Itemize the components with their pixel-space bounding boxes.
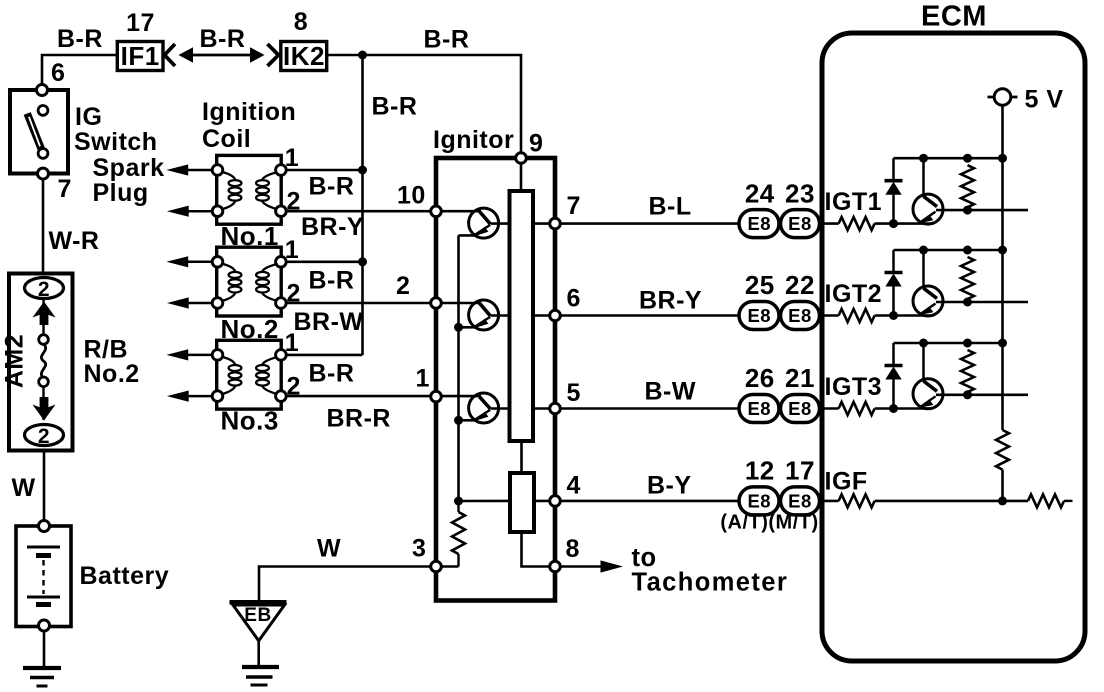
svg-text:Switch: Switch [74, 128, 158, 156]
label IGT3 [825, 373, 883, 401]
connector E8 pin 22 [781, 302, 820, 330]
connector E8 pin 23 [781, 210, 820, 238]
fuse AM2 in relay block R/B No.2 [1, 274, 73, 451]
junction IGT2 node [889, 311, 898, 320]
ECM box [822, 33, 1085, 661]
wire B-R from IK2 to Ignitor pin 9 [327, 55, 521, 153]
svg-text:21: 21 [785, 363, 815, 393]
junction collector / top rail [919, 154, 928, 163]
pin 1 (ignitor) [431, 391, 442, 402]
svg-text:24: 24 [745, 178, 775, 208]
label B-L [649, 193, 692, 221]
pin label 22 (E8) [785, 270, 815, 300]
wire IGT1 node [875, 222, 932, 225]
svg-text:4: 4 [567, 472, 581, 500]
label BR-W (coil No.2 pin 2 wire) [294, 308, 364, 336]
junction pull-up resistor / base line [963, 298, 972, 307]
junction B-R rail at coil No.2 [358, 257, 367, 266]
svg-text:Ignition: Ignition [202, 98, 296, 126]
connector E8 pin 26 [739, 395, 779, 423]
svg-text:EB: EB [244, 605, 271, 626]
label B-R (between IF1 and IK2) [200, 25, 246, 53]
svg-text:5: 5 [567, 379, 581, 407]
arrow to Tachometer (from pin 8) [560, 560, 623, 572]
svg-text:W: W [12, 474, 36, 502]
pin label 1 (coil No.1) [285, 144, 299, 172]
driver block (ignitor upper) [510, 191, 534, 441]
wire between driver blocks [520, 441, 523, 473]
transistor Q1 (ignitor) [469, 208, 550, 238]
svg-text:2: 2 [287, 280, 301, 308]
wire B-Y from ignitor to ECM [560, 500, 838, 503]
resistor (ignitor, emitter to pin 3) [452, 501, 465, 567]
svg-text:IGT1: IGT1 [825, 188, 883, 216]
svg-text:2: 2 [38, 425, 50, 448]
pin label 6 [567, 285, 581, 313]
pin label 23 (E8) [785, 178, 815, 208]
svg-text:8: 8 [294, 8, 308, 36]
wire W from ignitor pin 3 to EB [259, 567, 431, 602]
label No.3 [221, 406, 279, 436]
svg-text:No.3: No.3 [221, 406, 279, 436]
junction IGF / 5V rail [998, 496, 1007, 505]
pin 6 (ignitor) [550, 310, 561, 321]
diode D1 (ECM) [885, 158, 903, 223]
wire pin 3 to resistor [442, 565, 459, 568]
svg-text:B-R: B-R [309, 173, 355, 201]
battery [16, 521, 71, 632]
svg-text:IF1: IF1 [121, 41, 160, 71]
junction 5V rail / top rail [998, 246, 1007, 255]
ignition coil No.2 [212, 247, 286, 316]
pin label 3 (ignitor) [412, 535, 426, 563]
svg-text:E8: E8 [747, 490, 771, 511]
wire emitter Q1 to common rail [459, 234, 479, 237]
connector IK2 [281, 41, 327, 71]
connector E8 pin 21 [781, 395, 820, 423]
svg-text:8: 8 [566, 535, 580, 563]
label No.1 [221, 221, 279, 251]
svg-text:1: 1 [285, 236, 299, 264]
svg-text:IGF: IGF [825, 468, 868, 496]
switch IG Switch [10, 85, 158, 180]
pin label 5 [567, 379, 581, 407]
wire W from AM2 to battery [43, 451, 46, 527]
5V supply symbol [988, 89, 1018, 106]
label B-R (to Ignitor) [424, 26, 470, 54]
pin label 8 (ignitor) [566, 535, 580, 563]
transistor Q3 (ECM) [913, 343, 1028, 409]
wire emitter Q3 to common rail [459, 419, 479, 422]
spark plug arrow (coil No.2 secondary bottom) [167, 297, 212, 308]
wire from coil No.3 pin 1 to B-R rail [286, 354, 363, 357]
node 6 label [51, 59, 65, 87]
label B-Y [647, 472, 692, 500]
svg-text:2: 2 [396, 272, 410, 300]
pin label 26 (E8) [745, 363, 775, 393]
junction IGT3 node [889, 404, 898, 413]
svg-text:IGT3: IGT3 [825, 373, 883, 401]
svg-text:BR-Y: BR-Y [301, 213, 364, 241]
connector arrows between IF1 and IK2 (wire B-R) [165, 44, 279, 66]
connector IF1 [117, 41, 163, 71]
svg-text:BR-R: BR-R [327, 405, 392, 433]
svg-text:Plug: Plug [93, 179, 149, 207]
pin label 17 (IF1) [126, 9, 155, 37]
ground connector EB [230, 602, 287, 641]
label B-W [645, 378, 696, 406]
svg-text:9: 9 [529, 130, 543, 158]
resistor (ECM pull-up row 3) [961, 350, 974, 395]
svg-text:7: 7 [58, 175, 72, 203]
label No.2 [221, 314, 279, 344]
svg-text:1: 1 [416, 365, 430, 393]
label Ignition Coil [202, 98, 296, 153]
resistor (ECM input IGT2) [839, 309, 875, 322]
svg-text:W: W [317, 535, 341, 563]
label BR-Y (coil No.1 pin 2 wire) [301, 213, 364, 241]
wire EB to ground [257, 641, 260, 666]
svg-text:2: 2 [287, 373, 301, 401]
svg-text:(A/T)(M/T): (A/T)(M/T) [720, 512, 818, 534]
wire BR-R from coil No.3 pin 2 to ignitor [286, 395, 481, 398]
svg-text:B-R: B-R [372, 93, 418, 121]
svg-text:Tachometer: Tachometer [632, 569, 789, 597]
svg-text:Coil: Coil [202, 125, 251, 153]
junction B-R rail at coil No.1 [358, 166, 367, 175]
node 7 label [58, 175, 72, 203]
pin label 2 (coil No.2) [287, 280, 301, 308]
pin label 24 (E8) [745, 178, 775, 208]
connector E8 pin 12 [739, 487, 779, 515]
connector E8 pin 24 [739, 210, 779, 238]
transistor Q3 (ignitor) [469, 393, 550, 423]
resistor (ECM pull-up row 2) [961, 257, 974, 302]
label IGF [825, 468, 868, 496]
svg-text:E8: E8 [747, 213, 771, 234]
pin label 9 [529, 130, 543, 158]
resistor (ECM IGF right) [1028, 494, 1073, 507]
pin 7 (ignitor) [550, 218, 561, 229]
label B-R (coil No.1 pin 1 wire) [309, 173, 355, 201]
svg-text:AM2: AM2 [1, 334, 29, 388]
svg-text:Ignitor: Ignitor [433, 126, 514, 154]
wire B-W from ignitor to ECM [560, 407, 838, 410]
junction 5V rail / top rail [998, 339, 1007, 348]
svg-text:E8: E8 [788, 305, 812, 326]
ground (battery) [23, 668, 61, 686]
pin label 12 (E8) [745, 456, 775, 486]
junction collector / top rail [919, 339, 928, 348]
wire pin 9 to driver block [520, 163, 523, 191]
pin label 2 (coil No.3) [287, 373, 301, 401]
svg-text:BR-Y: BR-Y [639, 287, 702, 315]
ignition coil No.3 [212, 340, 286, 409]
svg-text:26: 26 [745, 363, 775, 393]
pin label 25 (E8) [745, 270, 775, 300]
junction emitter rail / Q2 [454, 323, 463, 332]
pin label 17 (E8) [785, 456, 815, 486]
transistor Q2 (ECM) [913, 250, 1028, 316]
junction resistor / top rail [963, 246, 972, 255]
svg-text:IG: IG [75, 103, 102, 131]
wire B-R vertical rail to ignition coils [361, 55, 364, 355]
junction pull-up resistor / base line [963, 206, 972, 215]
wire from coil No.1 pin 1 to B-R rail [286, 169, 363, 172]
connector E8 pin 25 [739, 302, 779, 330]
wire emitter common rail (ignitor) [457, 235, 460, 501]
svg-text:25: 25 [745, 270, 775, 300]
pin label 1 (coil No.2) [285, 236, 299, 264]
pin 10 (ignitor) [431, 206, 442, 217]
svg-text:3: 3 [412, 535, 426, 563]
wire emitter Q2 to common rail [459, 326, 479, 329]
wire IGF to 5V rail junction [875, 500, 1028, 503]
pin 2 (ignitor) [431, 298, 442, 309]
svg-text:6: 6 [567, 285, 581, 313]
resistor (5V rail to IGF) [996, 430, 1009, 470]
svg-text:B-R: B-R [309, 267, 355, 295]
svg-text:2: 2 [38, 278, 50, 301]
svg-text:6: 6 [51, 59, 65, 87]
svg-text:17: 17 [126, 9, 155, 37]
label (A/T)(M/T) [720, 512, 818, 534]
svg-text:12: 12 [745, 456, 775, 486]
junction collector / top rail [919, 246, 928, 255]
label W (battery wire) [12, 474, 36, 502]
wire pin 4 branch [459, 500, 550, 503]
svg-text:22: 22 [785, 270, 815, 300]
svg-text:2: 2 [287, 188, 301, 216]
label IGT1 [825, 188, 883, 216]
pin label 7 [567, 192, 581, 220]
svg-text:E8: E8 [788, 398, 812, 419]
svg-text:17: 17 [785, 456, 815, 486]
svg-text:B-R: B-R [309, 360, 355, 388]
wire 5V rail [1001, 105, 1004, 501]
wire BR-Y from ignitor to ECM [560, 314, 838, 317]
svg-text:B-Y: B-Y [647, 472, 692, 500]
label Spark Plug [93, 154, 165, 207]
label B-R (coil No.2 pin 1 wire) [309, 267, 355, 295]
pin label 2 (coil No.1) [287, 188, 301, 216]
pin label 10 [397, 182, 426, 210]
svg-text:1: 1 [285, 144, 299, 172]
diode D2 (ECM) [885, 250, 903, 316]
spark plug arrow (coil No.3 secondary bottom) [167, 391, 212, 402]
wire BR-W from coil No.2 pin 2 to ignitor [286, 302, 481, 305]
pin 4 (ignitor) [550, 496, 561, 507]
svg-text:IGT2: IGT2 [825, 280, 883, 308]
wire battery to ground [43, 631, 46, 668]
pin 5 (ignitor) [550, 403, 561, 414]
svg-text:W-R: W-R [49, 227, 100, 255]
svg-text:No.2: No.2 [84, 360, 140, 388]
svg-text:ECM: ECM [921, 1, 987, 33]
junction emitter rail / Q3 [454, 416, 463, 425]
label W (ignitor ground wire) [317, 535, 341, 563]
pin 8 (ignitor) [550, 561, 561, 572]
wire IGT2 node [875, 314, 932, 317]
transistor Q1 (ECM) [913, 158, 1028, 224]
label Ignitor [433, 126, 514, 154]
label ECM [921, 1, 987, 33]
wire top rail row 3 (ECM) [894, 342, 1003, 345]
wire B-L from ignitor to ECM [560, 222, 838, 225]
junction emitter rail / pin 4 branch [454, 497, 463, 506]
resistor (ECM input IGF) [839, 494, 875, 507]
pin 9 (ignitor) [516, 153, 527, 164]
connector E8 pin 17 [781, 487, 820, 515]
pin 3 (ignitor) [431, 561, 442, 572]
wire BR-Y from coil No.1 pin 2 to ignitor [286, 210, 481, 213]
wire top rail row 1 (ECM) [894, 157, 1003, 160]
svg-text:B-R: B-R [200, 25, 246, 53]
label R/B No.2 [84, 336, 140, 389]
label B-R (vertical rail) [372, 93, 418, 121]
spark plug arrow (coil No.1 secondary bottom) [167, 206, 212, 217]
label BR-R (coil No.3 pin 2 wire) [327, 405, 392, 433]
junction resistor / top rail [963, 154, 972, 163]
pin label 1 (coil No.3) [285, 329, 299, 357]
svg-text:E8: E8 [788, 490, 812, 511]
svg-text:B-L: B-L [649, 193, 692, 221]
wire IGT3 node [875, 407, 932, 410]
pin label 2 (ignitor) [396, 272, 410, 300]
svg-text:BR-W: BR-W [294, 308, 364, 336]
junction 5V rail / top rail [998, 154, 1007, 163]
svg-text:E8: E8 [747, 398, 771, 419]
ground (EB) [242, 667, 279, 685]
pin label 4 [567, 472, 581, 500]
spark plug arrow (coil No.3 secondary top) [166, 349, 212, 360]
svg-text:B-R: B-R [57, 25, 103, 53]
svg-text:10: 10 [397, 182, 426, 210]
label 5 V [1025, 86, 1064, 114]
wire B-R from IG switch node 6 to junction IF1 [42, 55, 118, 85]
svg-text:Battery: Battery [80, 562, 170, 590]
svg-text:IK2: IK2 [283, 41, 325, 71]
svg-text:B-R: B-R [424, 26, 470, 54]
ignitor box [436, 158, 555, 601]
transistor Q2 (ignitor) [469, 300, 550, 330]
junction IGT1 node [889, 219, 898, 228]
driver block (ignitor lower) [510, 473, 534, 532]
svg-text:7: 7 [567, 192, 581, 220]
label IGT2 [825, 280, 883, 308]
wire top rail row 2 (ECM) [894, 249, 1003, 252]
wire driver block to pin 8 [522, 532, 550, 567]
svg-text:E8: E8 [747, 305, 771, 326]
wire W-R from IG switch to AM2 [42, 179, 45, 274]
svg-text:Spark: Spark [93, 154, 165, 182]
pin label 8 (IK2) [294, 8, 308, 36]
spark plug arrow (coil No.2 secondary top) [166, 256, 212, 267]
pin label 21 (E8) [785, 363, 815, 393]
junction pull-up resistor / base line [963, 390, 972, 399]
label W-R [49, 227, 100, 255]
svg-text:1: 1 [285, 329, 299, 357]
label Battery [80, 562, 170, 590]
label B-R (coil No.3 pin 1 wire) [309, 360, 355, 388]
diode D3 (ECM) [885, 343, 903, 409]
junction resistor / top rail [963, 339, 972, 348]
svg-text:5 V: 5 V [1025, 86, 1064, 114]
svg-text:B-W: B-W [645, 378, 696, 406]
svg-text:23: 23 [785, 178, 815, 208]
junction B-R branch at top [358, 51, 367, 60]
resistor (ECM input IGT3) [839, 402, 875, 415]
spark plug arrow (coil No.1 secondary top) [166, 164, 212, 175]
ignition coil No.1 [212, 155, 286, 224]
resistor (ECM input IGT1) [839, 217, 875, 230]
label BR-Y [639, 287, 702, 315]
resistor (ECM pull-up row 1) [961, 165, 974, 210]
label to Tachometer [632, 544, 789, 597]
wire from coil No.2 pin 1 to B-R rail [286, 260, 363, 263]
svg-text:E8: E8 [788, 213, 812, 234]
label B-R (IG switch to IF1) [57, 25, 103, 53]
pin label 1 (ignitor) [416, 365, 430, 393]
